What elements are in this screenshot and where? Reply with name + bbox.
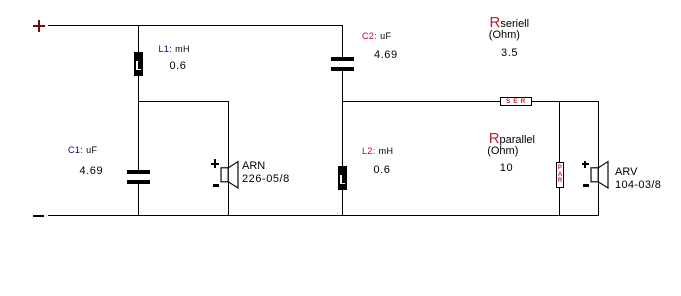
speaker ARN symbol	[219, 159, 240, 190]
speaker ARN minus	[213, 184, 219, 187]
wire left branch vertical upper	[138, 25, 139, 170]
wire top rail	[48, 25, 342, 26]
positive terminal +	[33, 25, 45, 27]
resistor R seriell label	[490, 15, 530, 31]
wire PAR branch vertical	[559, 101, 560, 215]
speaker ARV model	[615, 180, 661, 191]
capacitor C1 label	[68, 146, 97, 155]
wire bottom rail	[48, 215, 599, 216]
wire C2 branch vertical upper	[342, 25, 343, 57]
capacitor C2	[331, 57, 354, 61]
speaker ARV name	[615, 167, 637, 178]
speaker ARN plus	[211, 163, 219, 165]
inductor L2	[338, 166, 347, 190]
speaker ARN model	[242, 174, 290, 185]
wire ARV branch vertical	[598, 101, 599, 215]
inductor L2 value	[374, 165, 391, 176]
resistor R seriell value	[501, 48, 518, 59]
resistor PAR box	[556, 162, 564, 188]
speaker ARV plus	[582, 163, 589, 165]
capacitor C2 value	[374, 50, 398, 61]
inductor L1 label	[159, 45, 190, 54]
capacitor C1 value	[80, 166, 104, 177]
resistor R parallel unit	[487, 146, 518, 157]
speaker ARV symbol	[589, 159, 610, 190]
resistor R parallel value	[500, 163, 513, 174]
inductor L1	[134, 52, 143, 76]
inductor L1 value	[170, 61, 187, 72]
speaker ARN name	[242, 161, 265, 172]
inductor L2 label	[362, 147, 393, 156]
wire right rail to SER and ARV	[342, 101, 599, 102]
resistor SER box	[500, 97, 533, 106]
capacitor C1	[127, 170, 150, 174]
wire mid branch horizontal	[138, 101, 229, 102]
negative terminal -	[33, 215, 45, 217]
wire C2-L2 branch vertical lower	[342, 70, 343, 215]
speaker ARV minus	[583, 184, 589, 187]
resistor R seriell unit	[489, 30, 520, 41]
wire left branch vertical lower	[138, 184, 139, 216]
resistor R parallel label	[489, 131, 535, 147]
capacitor C2 label	[362, 32, 391, 41]
wire ARN branch vertical	[228, 101, 229, 215]
